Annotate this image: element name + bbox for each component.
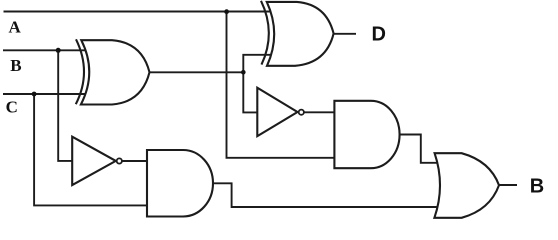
svg-text:B: B: [10, 56, 21, 75]
wire input A horizontal: [4, 11, 271, 13]
wire branch C vertical to AND1 lower input: [34, 94, 147, 205]
wire input B horizontal: [3, 49, 86, 51]
xor-gate U1 leading arc: [76, 39, 84, 104]
xor-gate U2 leading arc: [261, 1, 269, 65]
node on C line: [32, 92, 37, 97]
wire OR output to B: [499, 184, 517, 186]
node on A line: [224, 9, 229, 14]
node on B line: [56, 48, 61, 53]
wire branch A vertical to AND2 lower input: [227, 12, 335, 158]
not-gate U4 triangle: [257, 88, 297, 137]
not-gate U3 bubble: [117, 158, 122, 163]
and-gate U5: [147, 150, 213, 217]
xor-gate U2 body: [267, 2, 334, 66]
svg-text:D: D: [372, 23, 386, 45]
not-gate U4 bubble: [299, 110, 304, 115]
not-gate U3 triangle: [72, 137, 116, 185]
wire NOT2 output to AND2 top input: [304, 111, 335, 113]
wire AND2 output to OR top input: [399, 135, 438, 163]
or-gate U7: [434, 153, 499, 218]
and-gate U6: [334, 101, 399, 168]
svg-text:C: C: [6, 98, 18, 117]
node J at XOR1 output: [241, 70, 246, 75]
svg-text:B: B: [530, 176, 544, 198]
svg-text:A: A: [9, 18, 22, 37]
wire node J down to NOT2 input: [243, 72, 257, 112]
wire input C horizontal: [3, 93, 86, 95]
wire branch B vertical to NOT1 input: [58, 50, 73, 161]
wire XOR1 output to node J: [150, 71, 244, 73]
wire node J up to XOR2 lower input: [243, 55, 270, 72]
wire NOT1 output to AND1 top input: [122, 160, 148, 162]
xor-gate U1 body: [81, 40, 150, 104]
wire AND1 output to OR bottom input: [213, 183, 438, 207]
wire XOR2 output to D: [334, 33, 356, 35]
